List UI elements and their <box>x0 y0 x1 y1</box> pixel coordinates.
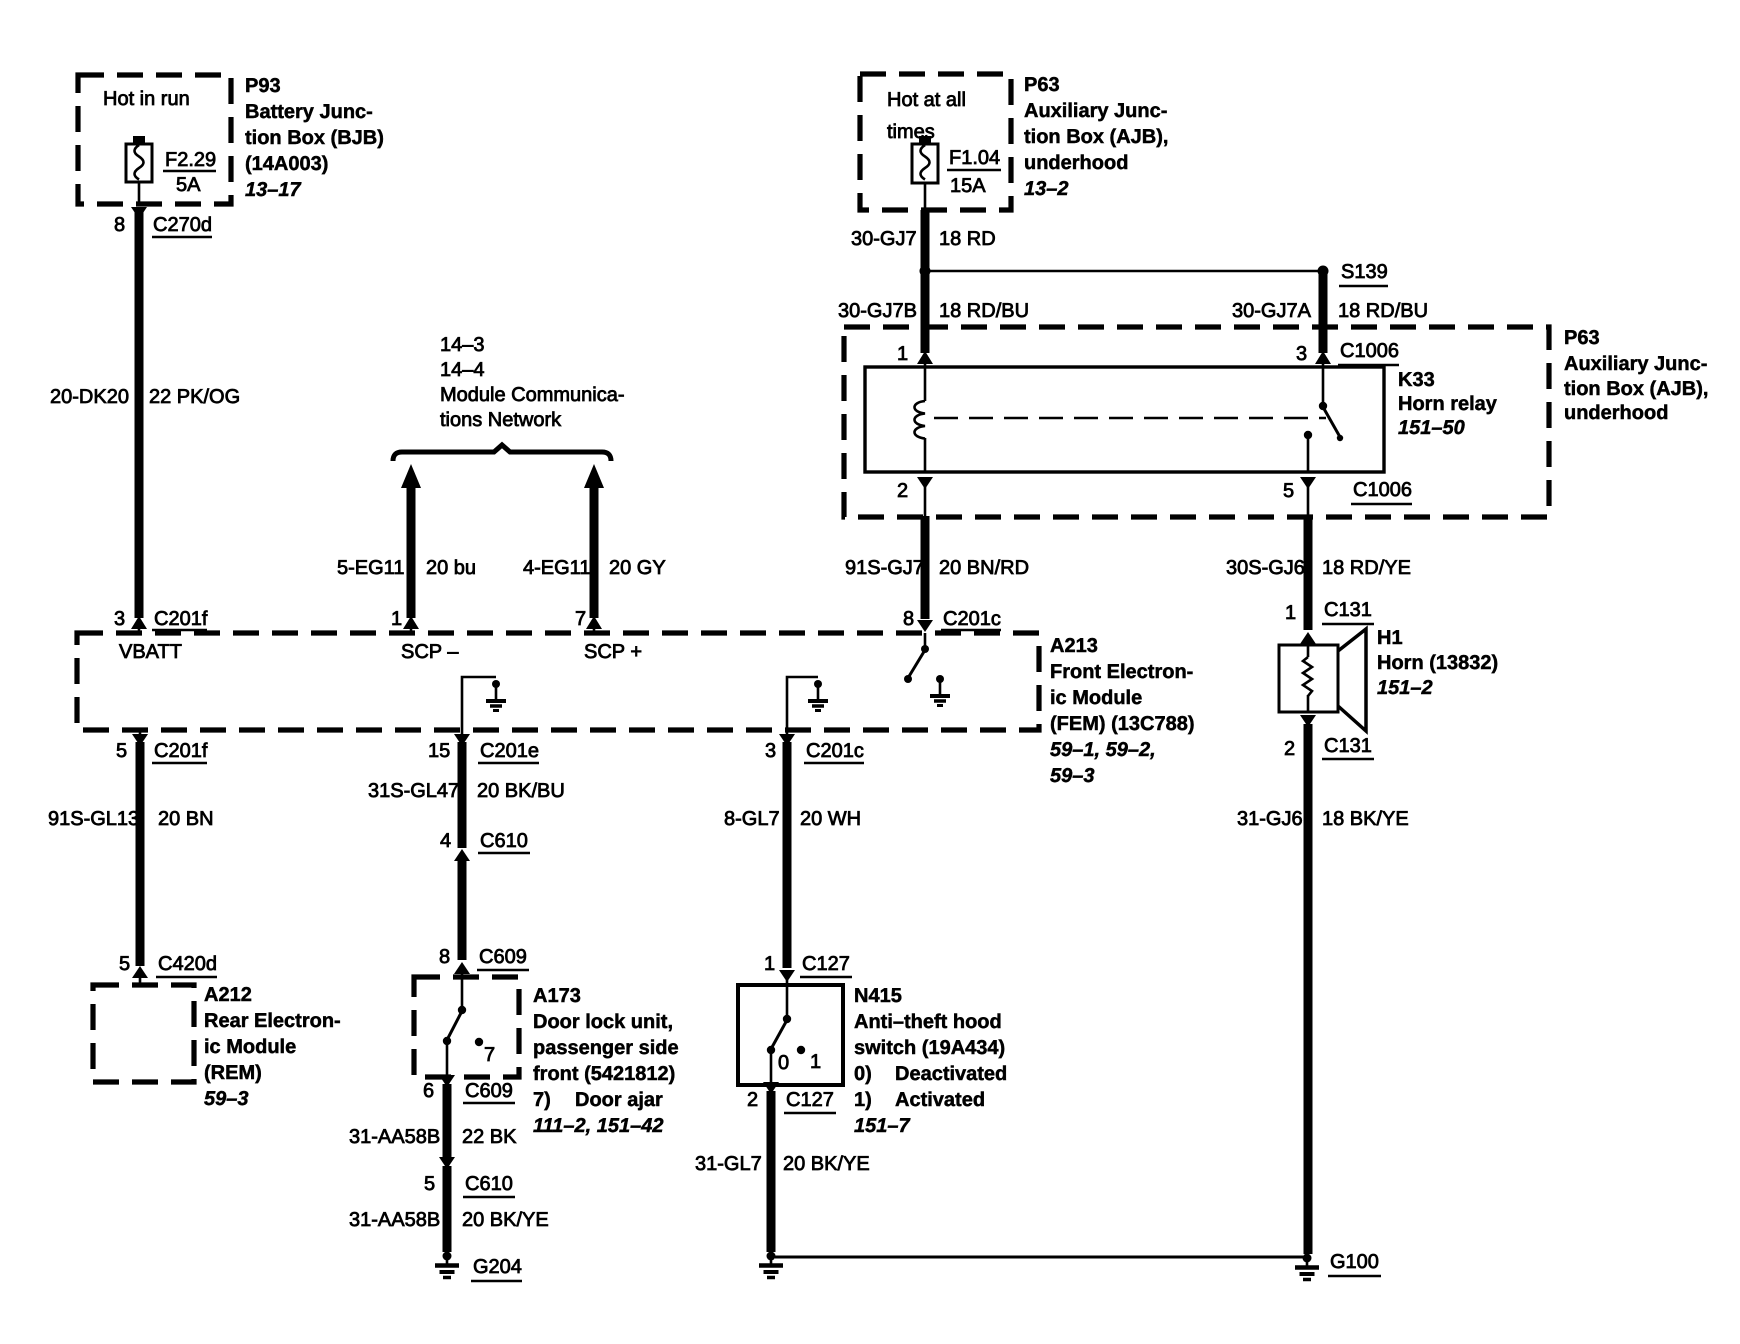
svg-text:C1006: C1006 <box>1340 340 1399 362</box>
svg-text:tion Box (AJB),: tion Box (AJB), <box>1564 378 1708 400</box>
svg-text:ic Module: ic Module <box>1050 687 1142 709</box>
svg-text:Door ajar: Door ajar <box>575 1089 663 1111</box>
svg-text:Front Electron-: Front Electron- <box>1050 661 1193 683</box>
svg-text:6: 6 <box>423 1080 434 1102</box>
svg-text:111–2, 151–42: 111–2, 151–42 <box>533 1115 664 1137</box>
svg-text:front (5421812): front (5421812) <box>533 1063 675 1085</box>
svg-text:5: 5 <box>1283 480 1294 502</box>
svg-text:22 BK: 22 BK <box>462 1126 517 1148</box>
svg-text:2: 2 <box>747 1089 758 1111</box>
svg-text:C131: C131 <box>1324 599 1372 621</box>
svg-text:tion Box (BJB): tion Box (BJB) <box>245 127 384 149</box>
svg-text:Battery Junc-: Battery Junc- <box>245 101 373 123</box>
svg-text:91S-GJ7: 91S-GJ7 <box>845 557 924 579</box>
svg-text:G204: G204 <box>473 1256 522 1278</box>
svg-text:(14A003): (14A003) <box>245 153 328 175</box>
svg-text:1: 1 <box>764 953 775 975</box>
svg-text:20 WH: 20 WH <box>800 808 861 830</box>
svg-text:15: 15 <box>428 740 450 762</box>
svg-text:C127: C127 <box>786 1089 834 1111</box>
svg-text:1: 1 <box>897 343 908 365</box>
svg-text:3: 3 <box>765 740 776 762</box>
svg-text:C127: C127 <box>802 953 850 975</box>
svg-text:20 GY: 20 GY <box>609 557 666 579</box>
svg-text:Auxiliary Junc-: Auxiliary Junc- <box>1564 353 1707 375</box>
svg-text:Horn (13832): Horn (13832) <box>1377 652 1498 674</box>
svg-text:P63: P63 <box>1024 74 1060 96</box>
svg-text:30-GJ7A: 30-GJ7A <box>1232 300 1312 322</box>
svg-text:30-GJ7B: 30-GJ7B <box>838 300 917 322</box>
svg-text:0): 0) <box>854 1063 872 1085</box>
svg-text:A213: A213 <box>1050 635 1098 657</box>
svg-text:C1006: C1006 <box>1353 479 1412 501</box>
svg-text:59–3: 59–3 <box>1050 765 1095 787</box>
svg-text:H1: H1 <box>1377 627 1403 649</box>
svg-text:5-EG11: 5-EG11 <box>337 557 404 579</box>
svg-text:passenger side: passenger side <box>533 1037 679 1059</box>
svg-text:7: 7 <box>484 1044 495 1066</box>
svg-text:A212: A212 <box>204 984 252 1006</box>
svg-text:Deactivated: Deactivated <box>895 1063 1007 1085</box>
svg-text:18 RD/YE: 18 RD/YE <box>1322 557 1411 579</box>
svg-text:P63: P63 <box>1564 327 1600 349</box>
svg-text:59–1, 59–2,: 59–1, 59–2, <box>1050 739 1156 761</box>
svg-text:31-GJ6: 31-GJ6 <box>1237 808 1303 830</box>
svg-text:18 RD/BU: 18 RD/BU <box>939 300 1029 322</box>
svg-text:8: 8 <box>439 946 450 968</box>
svg-text:31-GL7: 31-GL7 <box>695 1153 762 1175</box>
svg-text:30S-GJ6: 30S-GJ6 <box>1226 557 1305 579</box>
svg-text:0: 0 <box>778 1052 789 1074</box>
svg-text:5: 5 <box>424 1173 435 1195</box>
svg-text:8: 8 <box>903 608 914 630</box>
svg-text:1: 1 <box>810 1051 821 1073</box>
svg-text:C610: C610 <box>480 830 528 852</box>
svg-text:Rear Electron-: Rear Electron- <box>204 1010 341 1032</box>
svg-text:underhood: underhood <box>1024 152 1128 174</box>
svg-text:underhood: underhood <box>1564 402 1668 424</box>
svg-text:31S-GL47: 31S-GL47 <box>368 780 459 802</box>
svg-text:20 BK/BU: 20 BK/BU <box>477 780 565 802</box>
svg-text:K33: K33 <box>1398 369 1435 391</box>
svg-text:151–50: 151–50 <box>1398 417 1465 439</box>
svg-text:91S-GL13: 91S-GL13 <box>48 808 139 830</box>
svg-text:59–3: 59–3 <box>204 1088 249 1110</box>
svg-text:20-DK20: 20-DK20 <box>50 386 129 408</box>
svg-text:Anti–theft hood: Anti–theft hood <box>854 1011 1002 1033</box>
svg-text:ic Module: ic Module <box>204 1036 296 1058</box>
svg-text:C609: C609 <box>465 1080 513 1102</box>
svg-text:22 PK/OG: 22 PK/OG <box>149 386 240 408</box>
svg-text:151–7: 151–7 <box>854 1115 910 1137</box>
svg-text:A173: A173 <box>533 985 581 1007</box>
svg-text:C270d: C270d <box>153 214 212 236</box>
svg-text:14–3: 14–3 <box>440 334 485 356</box>
svg-text:3: 3 <box>114 608 125 630</box>
svg-text:2: 2 <box>1284 738 1295 760</box>
svg-text:SCP –: SCP – <box>401 641 459 663</box>
svg-text:7: 7 <box>575 608 586 630</box>
svg-text:(FEM) (13C788): (FEM) (13C788) <box>1050 713 1194 735</box>
svg-text:151–2: 151–2 <box>1377 677 1433 699</box>
svg-text:Auxiliary Junc-: Auxiliary Junc- <box>1024 100 1167 122</box>
svg-text:4: 4 <box>440 830 451 852</box>
svg-text:13–17: 13–17 <box>245 179 301 201</box>
svg-text:P93: P93 <box>245 75 281 97</box>
svg-text:tions Network: tions Network <box>440 409 562 431</box>
svg-text:C201f: C201f <box>154 608 208 630</box>
svg-text:20 BK/YE: 20 BK/YE <box>783 1153 870 1175</box>
svg-text:20 BN/RD: 20 BN/RD <box>939 557 1029 579</box>
svg-text:N415: N415 <box>854 985 902 1007</box>
svg-text:F1.04: F1.04 <box>949 147 1000 169</box>
svg-text:13–2: 13–2 <box>1024 178 1069 200</box>
svg-text:1: 1 <box>391 608 402 630</box>
svg-text:C420d: C420d <box>158 953 217 975</box>
svg-text:20 BN: 20 BN <box>158 808 214 830</box>
svg-text:2: 2 <box>897 480 908 502</box>
svg-text:C131: C131 <box>1324 735 1372 757</box>
svg-text:C610: C610 <box>465 1173 513 1195</box>
svg-text:(REM): (REM) <box>204 1062 262 1084</box>
svg-text:F2.29: F2.29 <box>165 149 216 171</box>
svg-text:8-GL7: 8-GL7 <box>724 808 780 830</box>
svg-text:18 RD: 18 RD <box>939 228 996 250</box>
svg-text:Horn relay: Horn relay <box>1398 393 1498 415</box>
svg-text:20 BK/YE: 20 BK/YE <box>462 1209 549 1231</box>
svg-text:30-GJ7: 30-GJ7 <box>851 228 917 250</box>
svg-text:switch (19A434): switch (19A434) <box>854 1037 1005 1059</box>
svg-text:SCP +: SCP + <box>584 641 642 663</box>
svg-text:15A: 15A <box>950 175 986 197</box>
svg-text:Activated: Activated <box>895 1089 985 1111</box>
svg-text:1: 1 <box>1285 602 1296 624</box>
svg-text:G100: G100 <box>1330 1251 1379 1273</box>
svg-text:18 BK/YE: 18 BK/YE <box>1322 808 1409 830</box>
svg-text:31-AA58B: 31-AA58B <box>349 1126 440 1148</box>
svg-text:C201c: C201c <box>943 608 1001 630</box>
svg-text:5: 5 <box>119 953 130 975</box>
svg-text:VBATT: VBATT <box>119 641 182 663</box>
svg-text:C609: C609 <box>479 946 527 968</box>
svg-text:Door lock unit,: Door lock unit, <box>533 1011 673 1033</box>
svg-text:14–4: 14–4 <box>440 359 485 381</box>
svg-text:S139: S139 <box>1341 261 1388 283</box>
svg-text:5: 5 <box>116 740 127 762</box>
svg-text:4-EG11: 4-EG11 <box>523 557 590 579</box>
svg-text:5A: 5A <box>176 174 201 196</box>
svg-text:31-AA58B: 31-AA58B <box>349 1209 440 1231</box>
svg-text:18 RD/BU: 18 RD/BU <box>1338 300 1428 322</box>
svg-text:7): 7) <box>533 1089 551 1111</box>
svg-text:3: 3 <box>1296 343 1307 365</box>
svg-text:C201e: C201e <box>480 740 539 762</box>
svg-text:Hot at all: Hot at all <box>887 89 966 111</box>
svg-text:Module Communica-: Module Communica- <box>440 384 625 406</box>
svg-text:tion Box (AJB),: tion Box (AJB), <box>1024 126 1168 148</box>
svg-text:8: 8 <box>114 214 125 236</box>
svg-text:Hot in run: Hot in run <box>103 88 190 110</box>
svg-text:20 bu: 20 bu <box>426 557 476 579</box>
svg-text:1): 1) <box>854 1089 872 1111</box>
svg-text:C201f: C201f <box>154 740 208 762</box>
svg-text:C201c: C201c <box>806 740 864 762</box>
